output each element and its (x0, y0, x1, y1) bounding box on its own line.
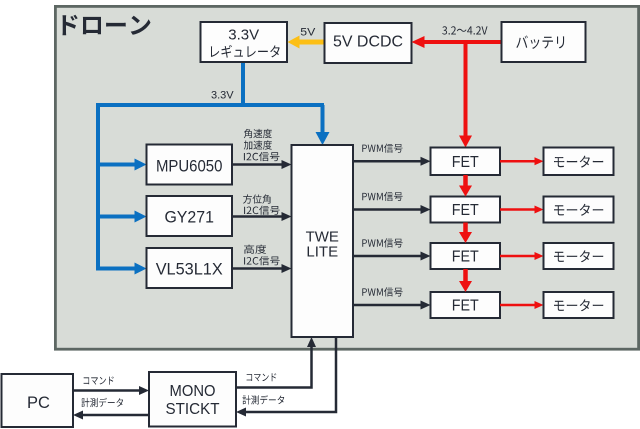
wire red FET 4 to motor (500, 304, 536, 307)
box motor モーター 3 (544, 243, 614, 269)
label PWM信号 3 (362, 238, 402, 247)
svg-text:FET: FET (452, 249, 479, 266)
title ドローン (63, 15, 151, 36)
svg-text:VL53L1X: VL53L1X (156, 259, 223, 278)
svg-text:5V DCDC: 5V DCDC (333, 33, 403, 50)
label I2C信号 (VL53) (244, 256, 280, 265)
svg-text:GY271: GY271 (164, 207, 214, 226)
svg-text:FET: FET (452, 154, 479, 171)
wire VL53L1X I2C to TWE (232, 267, 283, 270)
box FET 4 (431, 292, 501, 318)
wire 3.3V blue: horizontal bus (96, 103, 324, 107)
wire red FET 3 to FET 4 (463, 269, 468, 282)
wire GY271 I2C to TWE (232, 215, 283, 218)
box VL53L1X (147, 248, 233, 288)
label レギュレータ (regulator line2) (211, 45, 280, 58)
label バッテリ (516, 36, 564, 49)
wire PWM signal 3 TWE to FET (353, 255, 422, 258)
wire 3.3V blue branch to VL53L1X (98, 267, 136, 271)
label 方位角 (243, 194, 270, 203)
wire 3.3V blue branch to MPU6050 (98, 163, 136, 167)
wire 3.3V blue branch to GY271 (98, 215, 136, 219)
label 計測データ (TWE side) (243, 395, 285, 404)
box 5V DCDC (325, 23, 412, 63)
svg-text:FET: FET (452, 298, 479, 315)
box TWE LITE (292, 145, 354, 337)
wire red FET 2 to motor (500, 208, 536, 211)
box motor モーター 2 (544, 197, 614, 223)
box motor モーター 1 (544, 148, 614, 176)
label モーター 4 (554, 299, 603, 311)
label コマンド (PC side) (84, 377, 114, 385)
wire 3.3V blue drop into TWE LITE (321, 105, 325, 133)
label PWM信号 2 (362, 192, 402, 201)
box PC (2, 374, 74, 427)
label I2C信号 (MPU) (244, 152, 280, 161)
wire 3.3V blue: left vertical bus (96, 103, 100, 271)
svg-text:FET: FET (452, 202, 479, 219)
wire red battery to DCDC (424, 40, 502, 44)
box battery バッテリ (502, 22, 586, 62)
wire PWM signal 4 TWE to FET (353, 304, 422, 307)
svg-text:PC: PC (27, 394, 50, 412)
label PWM信号 4 (362, 287, 402, 296)
svg-text:LITE: LITE (306, 244, 338, 261)
wire red FET 2 to FET 3 (463, 223, 468, 234)
box 3.3V regulator (201, 22, 288, 62)
box FET 1 (431, 148, 501, 176)
box GY271 (147, 196, 233, 236)
svg-text:MPU6050: MPU6050 (156, 156, 223, 175)
wire red FET 1 to FET 2 (463, 175, 468, 187)
label I2C信号 (GY) (244, 206, 280, 215)
wire PWM signal 2 TWE to FET (353, 208, 422, 211)
panel: drone enclosure (55, 6, 638, 349)
wire 3.3V blue: regulator down (241, 62, 245, 107)
box FET 3 (431, 243, 501, 269)
label モーター 3 (554, 250, 603, 262)
box motor モーター 4 (544, 292, 614, 318)
label コマンド (TWE side) (247, 373, 277, 381)
svg-text:5V: 5V (300, 27, 316, 39)
label 高度 (244, 245, 266, 254)
svg-text:STICKT: STICKT (166, 401, 221, 418)
label 3.2~4.2V (442, 26, 487, 34)
label 角速度 (244, 129, 272, 138)
wire command MONO to TWE (up) (236, 347, 312, 388)
box MONO STICKT (149, 372, 236, 427)
wire red FET 3 to motor (500, 255, 536, 258)
wire PWM signal 1 TWE to FET (353, 160, 422, 163)
wire red FET 1 to motor (500, 160, 536, 163)
label PWM信号 1 (362, 144, 402, 153)
box MPU6050 (147, 145, 233, 185)
wire 5V yellow DCDC to regulator (299, 40, 325, 45)
svg-text:3.3V: 3.3V (211, 90, 234, 102)
svg-text:MONO: MONO (170, 383, 216, 400)
label モーター 1 (554, 156, 603, 168)
box FET 2 (431, 197, 501, 223)
label モーター 2 (554, 204, 603, 216)
wire data MONO to PC (82, 414, 149, 417)
label 加速度 (244, 140, 272, 149)
label 計測データ (PC side) (81, 398, 123, 407)
wire red battery trunk down (464, 40, 468, 136)
svg-text:3.3V: 3.3V (228, 27, 259, 44)
wire MPU6050 I2C to TWE (232, 163, 283, 166)
wire command PC to MONO (73, 389, 140, 392)
wire data TWE to MONO (down) (246, 337, 336, 412)
